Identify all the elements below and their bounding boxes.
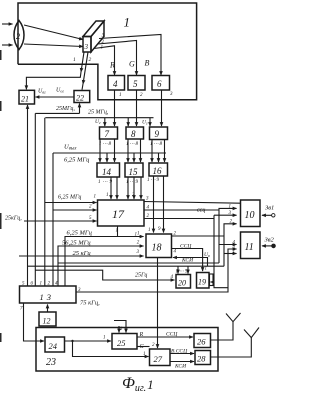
svg-text:3: 3 <box>84 43 89 51</box>
block 22 <box>74 91 90 103</box>
scan edge marks <box>0 50 2 342</box>
block 13 <box>20 286 77 303</box>
wire 15 to 17 a <box>127 177 129 199</box>
small buffer box right of 19 <box>210 274 214 286</box>
svg-text:17: 17 <box>112 207 125 221</box>
svg-text:24: 24 <box>49 341 58 351</box>
wire 27 to 28 KSI <box>170 361 194 363</box>
svg-text:25 МГц,: 25 МГц, <box>88 110 109 116</box>
wire 12 to 13 <box>47 305 49 313</box>
wire drop b to 20 <box>187 266 189 273</box>
block 14 <box>97 163 120 177</box>
wire bus 9 to 16 right <box>164 140 166 163</box>
wire bus 8 to 15 left <box>127 139 129 162</box>
svg-text:5: 5 <box>133 79 138 89</box>
wire 56.25MHz into 18 pin2 <box>58 246 144 286</box>
block 1 (camera unit) outline <box>18 3 197 100</box>
wire bus 9 to 16 left <box>151 140 153 163</box>
wire 25kHz into 17 pin5 <box>24 220 97 222</box>
svg-text:9: 9 <box>155 129 160 139</box>
svg-text:Зв2: Зв2 <box>265 237 275 244</box>
vertical col C arrow into 10 pin2 and down to y266 <box>224 224 237 266</box>
svg-text:6,25 МГц: 6,25 МГц <box>64 157 90 164</box>
wire Uvyh 6.25MHz line from v4 <box>53 152 166 154</box>
block 12 <box>39 312 56 326</box>
svg-text:16: 16 <box>153 166 163 176</box>
wire 13 pin7 to 24 <box>24 303 45 341</box>
block 8 <box>126 127 144 139</box>
wire 27 to 28 VSSC <box>170 353 194 355</box>
svg-text:1: 1 <box>119 93 122 98</box>
svg-text:R: R <box>109 61 115 70</box>
svg-text:23: 23 <box>46 357 56 368</box>
svg-text:Зв1: Зв1 <box>265 205 274 212</box>
wire 16 to 18 right <box>163 176 165 233</box>
svg-text:7: 7 <box>105 129 110 139</box>
wire drop to 14 <box>106 153 108 162</box>
junction dot on 24 output <box>71 340 73 342</box>
wire bus 7 to 14 right <box>114 139 116 162</box>
wire 15 to 17 b <box>133 177 135 199</box>
vertical col A with arrow into 10 and down to y261 <box>219 208 237 263</box>
wire 17 pin4 to vertical col A <box>144 209 219 211</box>
wire 25kHz into 18 pin3 <box>19 255 144 257</box>
svg-text:Uвг: Uвг <box>38 89 46 95</box>
block 17 <box>98 200 145 226</box>
block 24 <box>45 337 65 352</box>
svg-text:11: 11 <box>245 242 254 253</box>
wire Ug drop to 8 <box>127 118 129 126</box>
svg-text:1: 1 <box>143 352 146 357</box>
svg-text:1: 1 <box>205 267 208 272</box>
svg-text:ССЦ: ССЦ <box>180 244 192 250</box>
svg-text:1⋯9: 1⋯9 <box>98 180 113 185</box>
svg-text:25Гц: 25Гц <box>135 273 147 279</box>
block 4 (R sensor) <box>108 76 125 91</box>
wire 25MHz line B Ug distribution <box>45 117 153 119</box>
svg-text:56,25 МГц: 56,25 МГц <box>62 239 91 246</box>
wire bus 7 to 14 left <box>99 139 101 162</box>
block 26 <box>194 334 211 348</box>
wire 3 pin1 slant to line then 21 <box>81 52 84 72</box>
wire Ug drop to 7 <box>104 118 106 126</box>
svg-text:1: 1 <box>73 57 76 63</box>
svg-text:1: 1 <box>148 228 151 233</box>
wire v1 from 13 pin5 up into 21 <box>27 105 29 286</box>
block 5 (G sensor) <box>128 76 145 91</box>
wire v3 from 13 pin1 up to 25MHz line B <box>44 118 46 286</box>
svg-text:13: 13 <box>40 292 55 302</box>
svg-text:КСИ: КСИ <box>174 364 187 370</box>
wire into 17 pin2 <box>53 209 97 211</box>
wire 3 pin2 slant to 22 <box>83 52 88 84</box>
svg-text:2: 2 <box>89 57 92 63</box>
svg-text:6: 6 <box>157 79 162 89</box>
svg-text:26: 26 <box>197 337 206 347</box>
svg-text:10: 10 <box>245 210 255 221</box>
wire 14 to 17 b <box>116 177 118 199</box>
wire long line y262 <box>58 262 219 264</box>
wire 6.25MHz 1 into 17 pin1 <box>45 202 97 204</box>
wire 13 pin3 75kHz to 11 <box>76 249 237 292</box>
wire 15 to 17 c <box>140 177 142 199</box>
block 3 (colour splitter prism) <box>83 21 104 52</box>
svg-text:21: 21 <box>21 95 29 104</box>
svg-text:1: 1 <box>103 336 106 341</box>
wire 25MHz line A to 22 <box>35 112 79 114</box>
wire bus 8 to 15 right <box>140 139 142 162</box>
svg-text:25: 25 <box>117 338 126 348</box>
svg-text:1: 1 <box>106 193 109 198</box>
svg-text:1: 1 <box>94 195 97 200</box>
wire 17 bottom pin tap <box>117 226 119 237</box>
wire R drop into 25 <box>114 321 126 333</box>
svg-text:B: B <box>145 59 150 68</box>
svg-text:G: G <box>129 60 135 69</box>
wire 16 to 18 left <box>153 176 155 233</box>
wire 17 pin2r to vertical col B <box>144 218 214 220</box>
svg-text:6,25 МГц: 6,25 МГц <box>58 195 81 201</box>
wire col C into 11 pin3 <box>224 253 237 255</box>
input light arrow bottom <box>2 44 13 46</box>
wire second drop into 25 <box>118 326 120 333</box>
svg-text:28: 28 <box>197 354 206 364</box>
wire v2 from 13 pin6 up to line A <box>34 113 36 286</box>
block 18 <box>146 234 172 258</box>
block 19 <box>197 273 210 289</box>
svg-text:Uг: Uг <box>142 120 148 126</box>
block 10 <box>241 200 261 227</box>
wire 18 SSC to 19 <box>172 249 203 272</box>
block 23 outline <box>36 328 218 372</box>
wire Ug drop to 9 <box>149 118 151 126</box>
block 15 <box>125 163 143 177</box>
wire 6.25MHz into 18 pin1 with 17 bottom tap <box>65 237 144 287</box>
wire 18 pin2 to vertical col C <box>172 235 225 237</box>
wire 18 bottom to 25Hz line and 27 <box>157 258 159 349</box>
output Zv1 <box>262 205 275 218</box>
svg-text:4: 4 <box>113 79 118 89</box>
svg-text:1: 1 <box>40 282 43 287</box>
svg-text:1: 1 <box>116 229 119 234</box>
svg-text:18: 18 <box>152 243 162 254</box>
wire up into 22 <box>79 104 81 114</box>
output Zv2 <box>262 237 275 248</box>
antenna 2 <box>244 328 259 338</box>
antenna 1 <box>226 313 241 322</box>
wire 22 to 21 Uog <box>36 96 75 98</box>
wire 6 down to 9 <box>161 90 163 126</box>
svg-text:Uог: Uог <box>56 88 64 94</box>
svg-text:14: 14 <box>102 167 112 177</box>
vertical col B arrow into 10 and down to 19 <box>214 214 237 216</box>
svg-text:1⋯8: 1⋯8 <box>99 142 112 147</box>
svg-text:20: 20 <box>178 279 186 288</box>
ray upper lens to 3 <box>24 25 83 40</box>
wire 28 to antenna 2 <box>211 338 252 357</box>
block 11 <box>241 232 261 259</box>
svg-text:1: 1 <box>124 15 131 30</box>
wire 4 down to 7 <box>114 90 116 126</box>
wire drop a to 20 <box>177 266 179 273</box>
block 25 <box>112 334 137 350</box>
wire v4 from 13 pin2 up to Uvyh line <box>52 153 54 286</box>
input light arrow top <box>2 23 13 25</box>
svg-text:1: 1 <box>233 250 236 255</box>
svg-text:75 кГц,: 75 кГц, <box>80 300 100 307</box>
svg-text:6,25 МГц: 6,25 МГц <box>67 230 93 237</box>
svg-text:1: 1 <box>137 232 140 237</box>
wire 3 pin3 to block 6 <box>99 35 161 76</box>
wire 3 pin2 to block 5 <box>98 41 137 76</box>
ray lower lens to 3 <box>24 44 83 47</box>
wire 24 to 27 lower <box>73 341 149 357</box>
wire 14 to 17 a <box>110 177 112 199</box>
lens 2 <box>14 21 24 50</box>
svg-text:В.ССЦ: В.ССЦ <box>171 349 188 355</box>
wire 25 R SSC to 26 <box>137 336 193 338</box>
wire col A into 11 pin1 <box>219 244 237 246</box>
block 27 <box>150 349 171 366</box>
svg-text:19: 19 <box>198 278 206 287</box>
wire arrow into 19 right <box>211 281 215 283</box>
svg-text:1: 1 <box>101 46 104 51</box>
wire 17 pin3 to 10 <box>144 202 240 204</box>
wire 24 to 25 <box>65 340 112 342</box>
svg-text:ссц: ссц <box>197 208 205 214</box>
wire KSI into 18 <box>173 258 208 267</box>
wire 5 down to 8 <box>136 90 138 126</box>
svg-text:ССЦ: ССЦ <box>166 332 178 338</box>
svg-text:22: 22 <box>76 94 84 103</box>
block 9 <box>150 127 168 140</box>
svg-text:25 кГц: 25 кГц <box>73 250 92 257</box>
wire 26 to antenna 1 <box>211 322 234 340</box>
svg-text:27: 27 <box>154 354 163 364</box>
svg-text:25кГц,: 25кГц, <box>5 216 22 222</box>
block 28 <box>195 351 211 365</box>
wire 25Hz line from v2 into 20 <box>35 270 174 280</box>
wire drop to 16 <box>158 153 160 162</box>
block 16 <box>149 163 168 176</box>
svg-text:Uг: Uг <box>95 119 101 125</box>
block 20 <box>176 275 191 289</box>
block 21 <box>19 90 35 104</box>
wire 25 G to 27 <box>137 346 150 348</box>
wire 3 pin1 to block 4 <box>94 46 115 75</box>
wire drop to 15 <box>133 153 135 162</box>
svg-text:12: 12 <box>43 317 51 326</box>
block 7 <box>100 127 118 139</box>
block 6 (B sensor) <box>152 76 170 91</box>
svg-text:15: 15 <box>129 167 139 177</box>
svg-text:25МГц,: 25МГц, <box>56 106 75 112</box>
svg-text:8: 8 <box>131 129 136 139</box>
wire long line y266.5 with drops to 20 <box>28 265 225 267</box>
